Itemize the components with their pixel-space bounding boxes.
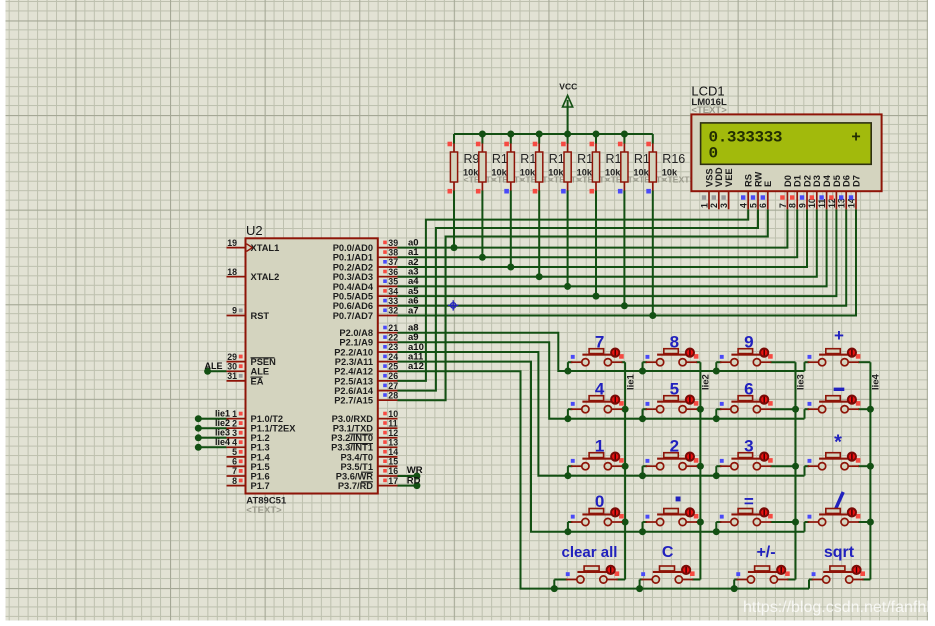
- svg-text:P1.0/T2: P1.0/T2: [251, 414, 284, 424]
- pin 35 P0.4/AD4 (right): [378, 285, 398, 287]
- net E: P2.7 to LCD pin6: [398, 209, 768, 400]
- junction: [731, 585, 738, 592]
- svg-text:P1.6: P1.6: [251, 471, 270, 481]
- wire button row2 col1 left drop: [567, 409, 569, 419]
- pin 31 EA (left): [227, 380, 246, 382]
- push-button "5" (row 2, col 2): [646, 379, 699, 412]
- svg-text:VEE: VEE: [724, 168, 734, 187]
- svg-text:24: 24: [388, 352, 398, 362]
- svg-text:16: 16: [388, 466, 398, 476]
- svg-text:https://blog.csdn.net/fanfhl: https://blog.csdn.net/fanfhl: [743, 599, 930, 616]
- pin 2 P1.1/T2EX (left): [227, 427, 246, 429]
- push-button "9" (row 1, col 3): [720, 332, 773, 365]
- wire a4: [398, 209, 827, 286]
- pin 21 P2.0/A8 (right): [378, 332, 398, 334]
- svg-text:P2.6/A14: P2.6/A14: [334, 386, 374, 396]
- svg-text:P0.0/AD0: P0.0/AD0: [333, 243, 373, 253]
- svg-text:32: 32: [388, 306, 398, 316]
- wire RD dangling: [398, 485, 417, 487]
- pin 6 P1.5 (left): [227, 465, 246, 467]
- svg-text:lie4: lie4: [215, 437, 230, 447]
- pin 17 P3.7/RD (right): [378, 485, 398, 487]
- junction: [639, 472, 646, 479]
- svg-text:P2.0/A8: P2.0/A8: [339, 328, 373, 338]
- svg-text:5: 5: [748, 203, 758, 208]
- wire row3 bus right riser: [804, 466, 806, 476]
- push-button "C" (row 5, col 2): [641, 544, 694, 583]
- net RS: P2.5 to LCD pin4: [398, 209, 749, 381]
- svg-text:P3.0/RXD: P3.0/RXD: [332, 414, 374, 424]
- pin 14 P3.4/T0 (right): [378, 456, 398, 458]
- svg-text:18: 18: [227, 267, 237, 277]
- svg-text:27: 27: [388, 381, 398, 391]
- junction a7/R16: [649, 312, 656, 319]
- wire row4 bus right riser: [804, 522, 806, 532]
- wire button r2c3 right link: [770, 408, 795, 410]
- wire column lie2 vertical: [699, 362, 701, 579]
- wire button row2 col3 left drop: [715, 409, 717, 419]
- push-button "=" (row 4, col 3): [720, 492, 773, 525]
- resistor R16 10k: [652, 134, 654, 144]
- wire button r5c3 right link: [787, 579, 796, 581]
- wire button row3 col3 left drop: [715, 466, 717, 476]
- wire WR dangling: [398, 475, 417, 477]
- LCD body: [691, 114, 881, 191]
- push-button "clear all" (row 5, col 1): [562, 544, 620, 583]
- svg-text:14: 14: [388, 447, 398, 457]
- wire button r1c2 right link: [696, 361, 700, 363]
- svg-text:26: 26: [388, 371, 398, 381]
- resistor R11 10k: [510, 134, 512, 144]
- wire row5 bus right riser to sqrt button: [808, 580, 810, 589]
- resistor R10 10k: [481, 134, 483, 144]
- wire a0: [398, 209, 788, 247]
- svg-text:D4: D4: [822, 174, 832, 187]
- pin 9 RST (left): [227, 315, 246, 317]
- svg-text:lie4: lie4: [871, 373, 882, 390]
- wire P1.1 lie2 dangling: [198, 427, 226, 429]
- pin 7 P1.6 (left): [227, 475, 246, 477]
- svg-text:29: 29: [227, 352, 237, 362]
- svg-text:P3.5/T1: P3.5/T1: [340, 462, 373, 472]
- svg-text:P1.5: P1.5: [251, 462, 270, 472]
- junction: [564, 472, 571, 479]
- svg-text:6: 6: [758, 203, 768, 208]
- svg-text:0.333333: 0.333333: [709, 128, 783, 146]
- push-button "1" (row 3, col 1): [571, 436, 624, 469]
- junction a4/R13: [564, 283, 571, 290]
- svg-text:1: 1: [232, 409, 237, 419]
- junction: [639, 368, 646, 375]
- wire row2 bus right riser: [804, 409, 806, 419]
- junction: [713, 368, 720, 375]
- push-button "6" (row 2, col 3): [720, 379, 773, 412]
- sheet origin marker: [448, 300, 458, 310]
- junction: [639, 415, 646, 422]
- junction a5/R14: [593, 293, 600, 300]
- junction: [564, 415, 571, 422]
- wire a5: [398, 209, 837, 296]
- junction: [792, 519, 799, 526]
- wire button row2 col2 left drop: [642, 409, 644, 419]
- svg-text:PSEN: PSEN: [251, 357, 277, 367]
- pin 4 P1.3 (left): [227, 446, 246, 448]
- pin 28 P2.7/A15 (right): [378, 399, 398, 401]
- junction: [639, 528, 646, 535]
- svg-text:25: 25: [388, 362, 398, 372]
- pin 13 P3.3/INT1 (right): [378, 446, 398, 448]
- svg-text:D1: D1: [793, 175, 803, 187]
- wire button row1 col2 left drop: [642, 362, 644, 371]
- svg-text:13: 13: [388, 438, 398, 448]
- svg-text:P2.7/A15: P2.7/A15: [334, 396, 373, 406]
- svg-text:VDD: VDD: [714, 167, 724, 187]
- svg-text:P2.3/A11: P2.3/A11: [335, 357, 373, 367]
- svg-text:EA: EA: [251, 376, 264, 386]
- svg-text:RW: RW: [753, 171, 763, 187]
- junction: [697, 406, 704, 413]
- push-button "-" (row 2, col 4): [808, 388, 861, 413]
- junction on top bus: [564, 131, 571, 138]
- wire button row1 col3 left drop: [715, 362, 717, 371]
- svg-text:33: 33: [388, 296, 398, 306]
- junction: [622, 463, 629, 470]
- wire a3: [398, 209, 817, 276]
- resistor R9 10k: [453, 134, 455, 144]
- push-button "3" (row 3, col 3): [720, 436, 773, 469]
- wire button r4c3 right link: [770, 521, 795, 523]
- svg-text:P2.4/A12: P2.4/A12: [334, 367, 373, 377]
- wire button r4c2 left link: [643, 521, 648, 523]
- wire button r3c2 right link: [696, 465, 700, 467]
- junction: [622, 519, 629, 526]
- pin 1 P1.0/T2 (left): [227, 418, 246, 420]
- pin 24 P2.3/A11 (right): [378, 361, 398, 363]
- svg-text:9: 9: [232, 306, 237, 316]
- svg-text:VCC: VCC: [559, 81, 577, 91]
- wire button r1c1 right link: [621, 361, 625, 363]
- svg-text:+: +: [851, 128, 861, 146]
- svg-text:P3.4/T0: P3.4/T0: [340, 452, 373, 462]
- wire button r2c4 right link: [858, 408, 870, 410]
- svg-text:0: 0: [709, 144, 719, 162]
- junction: [713, 528, 720, 535]
- wire button r4c4 left link: [805, 521, 810, 523]
- wire a1: [398, 209, 798, 257]
- pin 29 PSEN (left): [227, 361, 246, 363]
- svg-text:21: 21: [388, 323, 398, 333]
- svg-text:P1.7: P1.7: [251, 481, 270, 491]
- svg-text:8: 8: [788, 203, 798, 208]
- svg-text:P0.6/AD6: P0.6/AD6: [333, 301, 373, 311]
- svg-text:35: 35: [388, 277, 398, 287]
- wire P1.2 lie3 dangling: [198, 437, 226, 439]
- wire button r4c1 right link: [621, 521, 625, 523]
- wire button row5 col1 left drop: [553, 580, 555, 589]
- svg-text:P2.5/A13: P2.5/A13: [334, 376, 373, 386]
- push-button "2" (row 3, col 2): [646, 436, 699, 469]
- svg-text:E: E: [763, 181, 773, 187]
- junction: [697, 463, 704, 470]
- svg-text:P1.3: P1.3: [251, 443, 270, 453]
- wire ALE dangling: [208, 370, 227, 372]
- svg-text:3: 3: [719, 203, 729, 208]
- net a8: P2.0 to keypad row 1 bus: [398, 333, 805, 371]
- svg-text:lie1: lie1: [625, 373, 636, 390]
- junction on top bus: [621, 131, 628, 138]
- pin 10 P3.0/RXD (right): [378, 418, 398, 420]
- push-button "." (row 4, col 2): [646, 497, 699, 526]
- wire button row3 col2 left drop: [642, 466, 644, 476]
- svg-text:+/-: +/-: [756, 544, 775, 561]
- wire column lie4 vertical: [869, 362, 871, 579]
- wire button r3c2 left link: [643, 465, 648, 467]
- svg-text:lie1: lie1: [215, 409, 230, 419]
- wire button r2c2 right link: [696, 408, 700, 410]
- svg-text:4: 4: [739, 203, 749, 208]
- svg-text:lie3: lie3: [215, 428, 230, 438]
- pin 27 P2.6/A14 (right): [378, 390, 398, 392]
- wire button r5c4 left link: [809, 579, 813, 581]
- junction on top bus: [479, 131, 486, 138]
- junction on top bus: [507, 131, 514, 138]
- junction a2/R11: [507, 264, 514, 271]
- svg-text:lie3: lie3: [796, 374, 807, 390]
- pin 19 XTAL1 (left): [227, 247, 246, 249]
- wire a2: [398, 209, 808, 267]
- pin 37 P0.2/AD2 (right): [378, 266, 398, 268]
- wire row1 bus right riser to + button: [804, 362, 806, 371]
- svg-text:2: 2: [232, 418, 237, 428]
- wire button row4 col1 left drop: [567, 522, 569, 532]
- junction: [564, 528, 571, 535]
- svg-text:34: 34: [388, 286, 398, 296]
- wire button r1c2 left link: [643, 361, 648, 363]
- wire column lie1 vertical: [624, 362, 626, 579]
- svg-text:P1.2: P1.2: [251, 433, 270, 443]
- wire button r3c3 left link: [716, 465, 721, 467]
- wire button r1c4 right link: [858, 361, 870, 363]
- wire button r2c1 right link: [621, 408, 625, 410]
- wire VCC vertical: [567, 100, 569, 134]
- svg-text:lie2: lie2: [215, 418, 230, 428]
- junction on top bus: [536, 131, 543, 138]
- svg-text:P2.1/A9: P2.1/A9: [339, 338, 373, 348]
- svg-text:10: 10: [388, 409, 398, 419]
- wire button r5c2 left link: [640, 579, 643, 581]
- junction: [867, 406, 874, 413]
- svg-text:a12: a12: [408, 361, 424, 372]
- wire button row5 col2 left drop: [639, 580, 641, 589]
- pin 26 P2.5/A13 (right): [378, 380, 398, 382]
- wire button r5c3 left link: [734, 579, 738, 581]
- svg-text:P2.2/A10: P2.2/A10: [334, 347, 373, 357]
- pin 23 P2.2/A10 (right): [378, 351, 398, 353]
- wire button r5c2 right link: [692, 579, 701, 581]
- wire button row4 col3 left drop: [715, 522, 717, 532]
- svg-text:P0.2/AD2: P0.2/AD2: [333, 262, 373, 272]
- svg-text:RD: RD: [407, 476, 421, 487]
- svg-text:WR: WR: [407, 465, 423, 476]
- svg-text:2: 2: [709, 203, 719, 208]
- pin 11 P3.1/TXD (right): [378, 427, 398, 429]
- svg-text:8: 8: [232, 476, 237, 486]
- svg-text:37: 37: [388, 257, 398, 267]
- svg-text:38: 38: [388, 248, 398, 258]
- push-button "0" (row 4, col 1): [571, 492, 624, 525]
- svg-text:P0.5/AD5: P0.5/AD5: [333, 292, 373, 302]
- svg-text:a7: a7: [408, 305, 419, 316]
- push-button "4" (row 2, col 1): [571, 379, 624, 412]
- svg-text:P0.1/AD1: P0.1/AD1: [333, 253, 373, 263]
- svg-text:12: 12: [388, 428, 398, 438]
- junction: [697, 519, 704, 526]
- junction: [867, 463, 874, 470]
- resistor R15 10k: [623, 134, 625, 144]
- svg-text:D5: D5: [832, 175, 842, 187]
- svg-text:ALE: ALE: [205, 361, 223, 371]
- push-button "8" (row 1, col 2): [646, 332, 699, 365]
- svg-text:P3.1/TXD: P3.1/TXD: [333, 424, 374, 434]
- resistor R12 10k: [538, 134, 540, 144]
- net RW: P2.6 to LCD pin5: [398, 209, 759, 390]
- svg-text:<TEXT>: <TEXT>: [662, 175, 694, 185]
- junction on top bus: [593, 131, 600, 138]
- svg-text:28: 28: [388, 390, 398, 400]
- net a12: P2.4 to keypad row 5 bus: [398, 371, 810, 588]
- svg-text:clear all: clear all: [562, 544, 618, 561]
- svg-text:XTAL2: XTAL2: [251, 272, 280, 282]
- svg-text:ALE: ALE: [251, 367, 270, 377]
- svg-text:39: 39: [388, 238, 398, 248]
- svg-text:1: 1: [699, 203, 709, 208]
- junction: [622, 406, 629, 413]
- pin 22 P2.1/A9 (right): [378, 341, 398, 343]
- resistor R14 10k: [595, 134, 597, 144]
- svg-text:4: 4: [232, 438, 237, 448]
- pin 32 P0.7/AD7 (right): [378, 315, 398, 317]
- svg-text:P3.3/INT1: P3.3/INT1: [331, 443, 373, 453]
- svg-text:7: 7: [232, 466, 237, 476]
- svg-text:23: 23: [388, 342, 398, 352]
- net a11: P2.3 to keypad row 4 bus: [398, 362, 805, 532]
- svg-text:17: 17: [388, 476, 398, 486]
- wire button r5c1 right link: [616, 579, 625, 581]
- svg-text:+: +: [834, 326, 844, 345]
- wire P1.3 lie4 dangling: [198, 446, 226, 448]
- pin 39 P0.0/AD0 (right): [378, 247, 398, 249]
- wire button r5c1 left link: [554, 579, 567, 581]
- svg-text:D0: D0: [783, 175, 793, 187]
- wire button r3c1 left link: [568, 465, 573, 467]
- svg-text:5: 5: [232, 447, 237, 457]
- wire resistor top bus: [454, 133, 653, 135]
- svg-text:6: 6: [232, 457, 237, 467]
- push-button "/" (row 4, col 4): [808, 492, 861, 526]
- svg-text:30: 30: [227, 362, 237, 372]
- svg-text:<TEXT>: <TEXT>: [246, 505, 282, 516]
- wire button r4c2 right link: [696, 521, 700, 523]
- svg-text:*: *: [834, 432, 842, 454]
- wire button r1c4 left link: [805, 361, 810, 363]
- wire button r3c4 left link: [805, 465, 810, 467]
- wire a6: [398, 209, 847, 305]
- junction a3/R12: [536, 273, 543, 280]
- push-button "sqrt" (row 5, col 4): [812, 544, 865, 583]
- svg-text:P0.3/AD3: P0.3/AD3: [333, 272, 373, 282]
- svg-text:D6: D6: [842, 175, 852, 187]
- wire button r4c1 left link: [568, 521, 573, 523]
- net a10: P2.2 to keypad row 3 bus: [398, 352, 805, 476]
- junction: [713, 415, 720, 422]
- pin 38 P0.1/AD1 (right): [378, 256, 398, 258]
- wire button r4c3 left link: [716, 521, 721, 523]
- svg-text:C: C: [662, 544, 674, 561]
- wire button r2c1 left link: [568, 408, 573, 410]
- svg-text:D7: D7: [851, 175, 861, 187]
- push-button "+/-" (row 5, col 3): [736, 544, 789, 583]
- wire button row3 col1 left drop: [567, 466, 569, 476]
- pin 34 P0.5/AD5 (right): [378, 295, 398, 297]
- svg-text:7: 7: [778, 203, 788, 208]
- svg-text:15: 15: [388, 457, 398, 467]
- svg-text:3: 3: [232, 428, 237, 438]
- wire button row4 col2 left drop: [642, 522, 644, 532]
- svg-text:P0.4/AD4: P0.4/AD4: [333, 282, 374, 292]
- svg-text:9: 9: [797, 203, 807, 208]
- power symbol VCC: [563, 96, 573, 108]
- junction a1/R10: [479, 254, 486, 261]
- wire button row1 col1 left drop: [567, 362, 569, 371]
- svg-text:P3.6/WR: P3.6/WR: [336, 471, 373, 481]
- junction: [867, 519, 874, 526]
- pin 15 P3.5/T1 (right): [378, 465, 398, 467]
- net a9: P2.1 to keypad row 2 bus: [398, 342, 805, 418]
- wire button r2c3 left link: [716, 408, 721, 410]
- wire button row5 col3 left drop: [733, 580, 735, 589]
- wire button r2c4 left link: [805, 408, 810, 410]
- svg-text:P1.1/T2EX: P1.1/T2EX: [251, 424, 297, 434]
- svg-text:31: 31: [227, 371, 237, 381]
- junction: [551, 585, 558, 592]
- svg-text:R16: R16: [662, 152, 685, 166]
- junction: [713, 472, 720, 479]
- pin 8 P1.7 (left): [227, 485, 246, 487]
- wire button r1c3 right link: [770, 361, 795, 363]
- svg-text:RS: RS: [744, 174, 754, 187]
- svg-text:P0.7/AD7: P0.7/AD7: [333, 311, 373, 321]
- pin 36 P0.3/AD3 (right): [378, 276, 398, 278]
- pin 33 P0.6/AD6 (right): [378, 305, 398, 307]
- wire button r1c1 left link: [568, 361, 573, 363]
- svg-text:22: 22: [388, 333, 398, 343]
- svg-text:D3: D3: [812, 175, 822, 187]
- wire button r3c4 right link: [858, 465, 870, 467]
- wire button r3c3 right link: [770, 465, 795, 467]
- push-button "*" (row 3, col 4): [808, 432, 861, 470]
- svg-text:VSS: VSS: [704, 168, 714, 187]
- pin 16 P3.6/WR (right): [378, 475, 398, 477]
- wire a7: [398, 209, 857, 315]
- wire P1.0 lie1 dangling: [198, 418, 226, 420]
- pin 12 P3.2/INT0 (right): [378, 437, 398, 439]
- svg-text:P1.4: P1.4: [251, 452, 271, 462]
- clock chevron XTAL1: [247, 244, 253, 252]
- svg-text:11: 11: [388, 418, 397, 428]
- pin 25 P2.4/A12 (right): [378, 370, 398, 372]
- svg-text:P3.2/INT0: P3.2/INT0: [331, 433, 373, 443]
- svg-text:36: 36: [388, 267, 398, 277]
